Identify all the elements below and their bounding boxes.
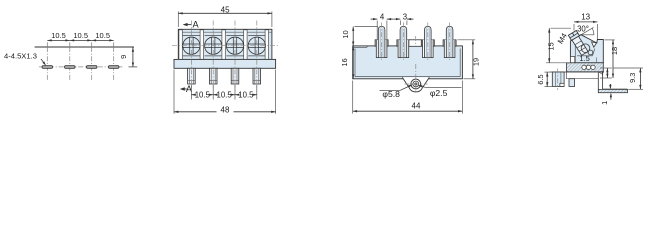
svg-text:10.5: 10.5 xyxy=(195,91,211,100)
svg-text:4: 4 xyxy=(597,71,606,75)
view 4 clamp pivot circle xyxy=(588,50,593,55)
svg-text:19: 19 xyxy=(472,58,481,66)
view 4 dimension 4 right xyxy=(600,67,612,69)
svg-text:10.5: 10.5 xyxy=(217,91,233,100)
view 4 mounting foot xyxy=(552,72,564,86)
svg-text:44: 44 xyxy=(412,102,421,111)
svg-text:10.5: 10.5 xyxy=(73,31,88,40)
svg-text:30°: 30° xyxy=(577,25,589,34)
view 3 mounting hole boss xyxy=(402,77,429,92)
view 4 thread section circles xyxy=(582,65,586,69)
svg-text:4: 4 xyxy=(380,12,385,21)
view 1 dimension 9 right side xyxy=(132,47,134,67)
view 4 body lower-left notch xyxy=(570,56,574,62)
svg-text:9.3: 9.3 xyxy=(628,73,637,83)
view 2 dimension 48 bottom xyxy=(173,70,175,114)
view 2 separator walls xyxy=(179,30,182,60)
svg-text:15: 15 xyxy=(547,42,556,50)
view 2 section arrow A bottom xyxy=(181,88,187,90)
svg-text:1: 1 xyxy=(600,101,609,105)
view 3 dimension 16 left xyxy=(352,46,354,79)
view 1 slot centerlines xyxy=(46,42,48,47)
view 4 dimension 6.5 left xyxy=(545,71,551,73)
view 4 wire entry notch xyxy=(592,42,597,47)
view 4 lower ledge line xyxy=(566,78,600,80)
view 4 base bottom line xyxy=(550,71,604,73)
view 4 screw thread lines xyxy=(575,41,582,45)
view 4 dimension 18 right xyxy=(605,39,615,41)
view 4 band left wall xyxy=(566,72,568,79)
view 4 dimension 1 bottom xyxy=(609,84,611,88)
svg-text:4-4.5X1.3: 4-4.5X1.3 xyxy=(4,52,37,61)
view 3 base inner wall lines xyxy=(354,49,356,77)
view 4 clamp ring circle xyxy=(581,44,590,53)
view 4 dimension 13 top xyxy=(573,24,575,31)
view 1 dimension 10.5 x3 top xyxy=(47,39,113,41)
view 3 middle empty notch xyxy=(409,40,421,47)
view 4 clamp hatched section xyxy=(567,63,604,72)
view 2 terminal cells with screws xyxy=(183,35,200,37)
view 2 base block xyxy=(174,59,276,68)
view 4 dimension 9.3 right xyxy=(613,67,643,69)
view 2 top strip line xyxy=(178,31,272,33)
svg-text:φ2.5: φ2.5 xyxy=(430,88,448,98)
svg-text:48: 48 xyxy=(221,105,230,114)
view 4 solder lug horizontal leg hatched xyxy=(598,89,627,92)
svg-text:6.5: 6.5 xyxy=(536,74,545,84)
view 2 solder pins xyxy=(188,68,196,84)
view 3 pin sockets xyxy=(376,40,387,58)
svg-text:13: 13 xyxy=(581,13,590,22)
view 3 hole centerlines xyxy=(415,64,417,94)
view 3 mounting hole circles xyxy=(411,79,421,89)
svg-text:1.5: 1.5 xyxy=(579,54,589,63)
svg-text:3: 3 xyxy=(403,12,407,21)
view 3 dimension 44 bottom xyxy=(352,81,354,114)
svg-text:9: 9 xyxy=(119,55,128,59)
view 2 section arrow A top xyxy=(184,24,192,26)
view 1 top edge outline xyxy=(35,46,134,48)
view 4 rear rib xyxy=(569,79,575,87)
view 2 dimension 10.5 x3 bottom xyxy=(190,85,192,100)
view 4 dimension 15 left xyxy=(551,27,572,29)
view 1 four slots 4.5x1.3 xyxy=(42,66,53,69)
view 4 tilted body outline xyxy=(570,35,603,63)
view 4 solder lug vertical part xyxy=(599,72,603,89)
svg-text:16: 16 xyxy=(340,58,349,66)
view 3 pin collars xyxy=(375,40,388,46)
svg-text:A: A xyxy=(186,84,193,94)
svg-text:18: 18 xyxy=(610,47,619,55)
svg-text:45: 45 xyxy=(221,5,230,14)
view 2 dimension 45 top xyxy=(177,12,179,28)
view 4 screw shank xyxy=(572,36,588,55)
view 2 body outline xyxy=(178,29,272,59)
svg-text:10: 10 xyxy=(341,30,350,38)
svg-text:A: A xyxy=(193,19,200,29)
svg-text:10.5: 10.5 xyxy=(51,31,66,40)
svg-text:10.5: 10.5 xyxy=(95,31,110,40)
view 2 horizontal centerline xyxy=(172,45,278,47)
view 3 dimension 19 right xyxy=(458,39,476,41)
view 3 pins xyxy=(378,26,385,57)
view 4 body inner lines xyxy=(574,44,576,63)
svg-text:10.5: 10.5 xyxy=(238,91,254,100)
view 3 base block xyxy=(353,46,463,79)
view 3 base top-left ledge xyxy=(353,47,366,49)
view 4 screw M4 head xyxy=(568,31,579,41)
view 1 horizontal centerline xyxy=(39,66,123,68)
view 3 dimension 10 left xyxy=(355,26,379,28)
view 4 screw head mid line xyxy=(570,33,578,38)
view 2 vertical centerlines xyxy=(190,21,192,88)
